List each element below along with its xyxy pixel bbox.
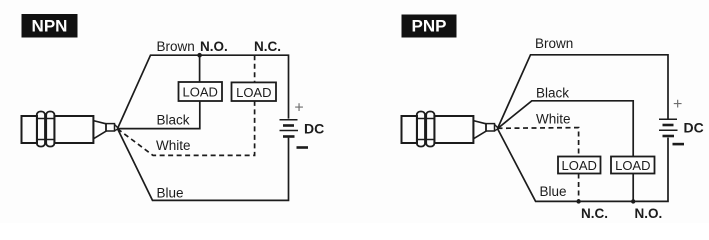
LOAD box 1 (N.C. load, PNP) — [558, 157, 601, 174]
svg-text:Black: Black — [536, 86, 569, 101]
svg-text:LOAD: LOAD — [182, 85, 217, 100]
svg-text:N.O.: N.O. — [635, 206, 663, 221]
svg-text:N.C.: N.C. — [254, 39, 281, 54]
PNP title label — [402, 15, 457, 38]
wire N.O. drop to LOAD — [199, 55, 201, 82]
sensor (NPN) cable taper — [93, 121, 106, 139]
battery DC (PNP) — [659, 119, 678, 136]
LOAD box 2 (N.O. load, PNP) — [611, 157, 655, 174]
svg-text:Brown: Brown — [157, 39, 195, 54]
sensor (NPN) cable exit point — [115, 125, 119, 131]
sensor (PNP) body head — [402, 116, 418, 143]
svg-text:LOAD: LOAD — [561, 158, 596, 173]
sensor (PNP) nut ring 1 — [417, 112, 425, 147]
wire N.C. dashed drop from brown rail — [254, 55, 256, 82]
svg-text:Blue: Blue — [540, 184, 567, 199]
svg-text:DC: DC — [684, 120, 704, 136]
battery DC (NPN) — [280, 120, 299, 137]
svg-text:White: White — [156, 138, 191, 153]
wire white dashed (PNP): to N.C. LOAD top — [498, 128, 579, 157]
wire N.C. dashed below LOAD 1 (PNP) — [578, 174, 580, 204]
wire black (PNP): to N.O. LOAD top — [498, 101, 634, 157]
svg-text:Blue: Blue — [157, 186, 184, 201]
NPN title label — [22, 14, 78, 38]
svg-text:NPN: NPN — [32, 17, 68, 36]
wire blue (PNP): from sensor to battery - — [498, 129, 669, 202]
sensor (NPN) cable gland — [106, 124, 115, 131]
svg-text:N.O.: N.O. — [200, 39, 228, 54]
svg-text:White: White — [536, 112, 571, 127]
node: N.C./blue junction dot (PNP) — [576, 199, 580, 203]
sensor (NPN) body head — [22, 116, 38, 143]
wire N.O. below LOAD 2 (PNP) — [632, 174, 634, 204]
svg-text:LOAD: LOAD — [615, 158, 650, 173]
sensor (PNP) nut ring 2 — [426, 112, 434, 147]
svg-text:PNP: PNP — [412, 17, 447, 36]
wire brown (NPN): fan-out to top rail and battery + — [118, 55, 289, 128]
sensor (PNP) barrel — [434, 116, 473, 143]
battery - sign (NPN) — [297, 146, 309, 149]
svg-text:LOAD: LOAD — [236, 85, 271, 100]
svg-text:DC: DC — [304, 121, 324, 137]
sensor (NPN) nut ring 2 — [46, 112, 54, 147]
sensor (NPN) barrel — [54, 116, 93, 143]
battery - sign (PNP) — [673, 143, 685, 146]
svg-text:Black: Black — [157, 113, 190, 128]
sensor (PNP) cable gland — [486, 124, 495, 131]
wire white dashed (NPN): from sensor to bottom of LOAD 2 — [118, 101, 255, 155]
node: N.O./blue junction dot (PNP) — [631, 199, 635, 203]
sensor (PNP) cable taper — [473, 121, 486, 139]
LOAD box 1 (N.O. load, NPN) — [179, 82, 223, 101]
svg-text:+: + — [294, 100, 303, 117]
LOAD box 2 (N.C. load, NPN) — [232, 82, 277, 101]
sensor (NPN) nut ring 1 — [37, 112, 45, 147]
svg-text:Brown: Brown — [535, 36, 573, 51]
sensor (PNP) cable exit point — [495, 125, 499, 131]
node: brown / N.O. junction dot — [197, 53, 202, 58]
wire brown (PNP): fan-out to top rail and battery + — [498, 55, 669, 129]
wire black (NPN): from sensor to bottom of LOAD 1 — [118, 101, 200, 129]
svg-text:+: + — [673, 96, 682, 113]
wire blue (NPN): from sensor to battery - — [118, 129, 289, 201]
svg-text:N.C.: N.C. — [581, 206, 608, 221]
